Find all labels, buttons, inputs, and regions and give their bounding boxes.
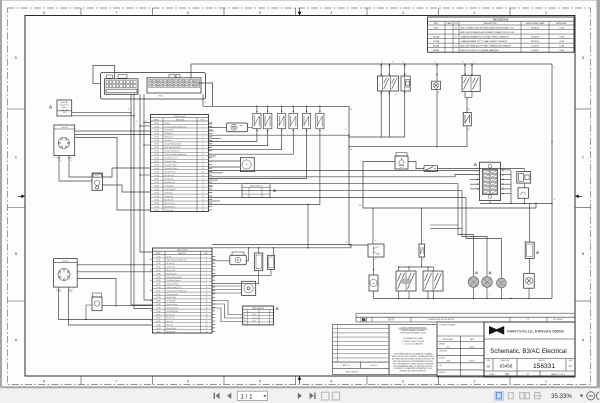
zoom out button xyxy=(587,392,595,400)
svg-text:Chassis Gnd: Chassis Gnd xyxy=(165,210,174,212)
svg-text:31: 31 xyxy=(438,92,440,94)
temp module xyxy=(518,188,528,199)
revision table xyxy=(428,17,575,52)
svg-text:23: 23 xyxy=(202,199,204,201)
jumper loop wire xyxy=(93,66,115,84)
relay K1 xyxy=(377,76,398,91)
solenoid pair A xyxy=(396,271,416,291)
svg-text:J1A Traction: J1A Traction xyxy=(174,115,185,118)
svg-text:25: 25 xyxy=(202,206,204,208)
valve right pin wires xyxy=(500,169,511,171)
svg-text:Black: Black xyxy=(253,314,257,316)
svg-text:6: 6 xyxy=(187,380,189,384)
svg-text:REVISIONS: REVISIONS xyxy=(493,18,508,22)
svg-text:10/28/20: 10/28/20 xyxy=(531,27,540,29)
relay K2 xyxy=(462,75,480,91)
single page view button active xyxy=(494,391,504,400)
fuse box small xyxy=(92,173,103,190)
svg-text:REV: REV xyxy=(569,360,572,362)
bottom bus xyxy=(374,297,553,299)
hour meter xyxy=(227,123,248,132)
svg-text:5: 5 xyxy=(259,11,261,15)
center mark top xyxy=(298,12,302,16)
svg-text:3: 3 xyxy=(402,11,404,15)
svg-text:63458: 63458 xyxy=(500,363,513,368)
svg-text:1: 1 xyxy=(545,11,547,15)
rotate cw button xyxy=(332,392,339,400)
svg-text:5: 5 xyxy=(259,380,261,384)
rotate ccw button xyxy=(322,392,329,400)
svg-text:APPROVALS: APPROVALS xyxy=(443,338,454,341)
title block number row xyxy=(484,358,575,360)
svg-text:INTERPRET PER ASME Y14.5M: INTERPRET PER ASME Y14.5M xyxy=(401,332,426,335)
next page button xyxy=(298,393,302,399)
fuse F3 xyxy=(421,208,423,244)
horn 2 xyxy=(482,277,493,288)
svg-text:WT: WT xyxy=(527,374,530,376)
svg-text:FUNCTION: FUNCTION xyxy=(176,119,185,121)
harness vertical wires xyxy=(131,94,153,305)
keyswitch 1 xyxy=(54,125,75,156)
svg-text:CLM: CLM xyxy=(559,46,564,48)
svg-text:UNIT WEIGHT: UNIT WEIGHT xyxy=(553,319,563,321)
center mark bottom xyxy=(298,376,302,380)
svg-text:MARYSVILLE, KANSAS 66508: MARYSVILLE, KANSAS 66508 xyxy=(507,328,564,333)
horn 1 xyxy=(468,277,479,288)
svg-text:1/31/22: 1/31/22 xyxy=(531,50,539,52)
flasher module xyxy=(396,153,407,157)
svg-text:20: 20 xyxy=(206,321,208,323)
svg-text:WIRE #: WIRE # xyxy=(156,253,162,255)
svg-text:KYSW: KYSW xyxy=(56,158,61,160)
svg-text:±.05 ±.01 ±.005 ANGLES: ±.05 ±.01 ±.005 ANGLES xyxy=(404,343,424,346)
warning triangle temp xyxy=(276,307,279,309)
page bottom shadow xyxy=(2,387,597,389)
title block approvals column xyxy=(437,322,484,377)
svg-text:1 PLACE 2 PLACE 3 PLACE: 1 PLACE 2 PLACE 3 PLACE xyxy=(402,340,425,343)
svg-text:4: 4 xyxy=(331,11,333,15)
svg-text:8: 8 xyxy=(43,380,45,384)
svg-text:23: 23 xyxy=(206,331,208,333)
svg-text:50: 50 xyxy=(60,160,62,162)
svg-text:15: 15 xyxy=(202,172,204,174)
svg-text:10: 10 xyxy=(206,287,208,289)
svg-text:18: 18 xyxy=(136,121,138,123)
svg-text:CLM: CLM xyxy=(559,36,564,38)
warning triangle valve xyxy=(474,163,477,165)
svg-text:87: 87 xyxy=(375,259,377,261)
svg-text:CHANGED BRAKE POT TO HALL EFFE: CHANGED BRAKE POT TO HALL EFFECT SENSOR xyxy=(461,35,510,38)
fuse F4 xyxy=(529,203,531,242)
viewer toolbar xyxy=(0,388,600,403)
svg-text:85: 85 xyxy=(392,62,394,64)
svg-text:CHECK BY APP. DATE: CHECK BY APP. DATE xyxy=(525,22,545,25)
svg-text:18: 18 xyxy=(202,182,204,184)
svg-text:SHEET 1 OF 1: SHEET 1 OF 1 xyxy=(551,374,566,376)
svg-text:7: 7 xyxy=(202,144,203,146)
two page view button xyxy=(520,393,524,399)
svg-text:ENGRG: ENGRG xyxy=(439,358,446,360)
charge port box xyxy=(57,100,72,116)
svg-text:Trans Sw: Trans Sw xyxy=(61,126,69,129)
svg-text:ADD CONNECTORS FOR AUX VALVE S: ADD CONNECTORS FOR AUX VALVE SWITCH AND … xyxy=(461,26,515,29)
svg-text:PART NO: PART NO xyxy=(342,364,350,367)
label tabs above J2 xyxy=(169,75,175,78)
table J1A left stub wires xyxy=(144,122,151,124)
svg-text:17: 17 xyxy=(206,311,208,313)
svg-text:B+: B+ xyxy=(345,129,347,131)
svg-text:APPLICATION: APPLICATION xyxy=(346,371,358,374)
svg-text:CLM: CLM xyxy=(559,41,564,43)
valve loop wire xyxy=(363,162,536,209)
bus1 wire xyxy=(203,105,349,107)
svg-text:30: 30 xyxy=(70,292,72,294)
svg-text:12: 12 xyxy=(206,294,208,296)
svg-text:ADD OPTIONAL ACUITY FAST CHARG: ADD OPTIONAL ACUITY FAST CHARGE 80V SENS… xyxy=(461,45,512,48)
table J1B right stubs all rows xyxy=(212,255,215,257)
svg-text:Schematic, B3/AC Electrical: Schematic, B3/AC Electrical xyxy=(490,348,566,355)
svg-text:85: 85 xyxy=(473,62,475,64)
table J1B right wires xyxy=(212,244,351,247)
svg-text:8: 8 xyxy=(202,147,203,149)
svg-text:13: 13 xyxy=(202,165,204,167)
warning triangle horn1 xyxy=(475,271,478,273)
svg-text:15: 15 xyxy=(434,62,436,64)
svg-text:22: 22 xyxy=(202,196,204,198)
valve connector block xyxy=(480,162,501,200)
svg-text:6: 6 xyxy=(187,11,189,15)
svg-text:30: 30 xyxy=(70,160,72,162)
svg-text:86: 86 xyxy=(402,62,404,64)
zone ticks and labels xyxy=(80,8,82,16)
solenoid pair B xyxy=(423,271,443,291)
fuse F2 xyxy=(463,113,471,126)
svg-text:156331: 156331 xyxy=(533,363,555,370)
svg-text:21: 21 xyxy=(202,192,204,194)
svg-text:15: 15 xyxy=(423,240,425,242)
svg-text:6/4/21: 6/4/21 xyxy=(470,361,475,363)
svg-text:4: 4 xyxy=(202,133,203,135)
switch module xyxy=(408,162,424,169)
svg-text:WIRE #: WIRE # xyxy=(154,119,160,121)
svg-text:1714A: 1714A xyxy=(433,35,440,38)
svg-text:87: 87 xyxy=(346,242,348,244)
svg-text:SCALE: SCALE xyxy=(489,373,495,376)
svg-text:TEMP SENSOR: TEMP SENSOR xyxy=(252,308,265,310)
svg-text:Elect: Elect xyxy=(159,95,164,98)
svg-text:15: 15 xyxy=(206,304,208,306)
keyswitch 2 xyxy=(54,259,78,288)
prev page button xyxy=(227,393,231,399)
svg-text:87: 87 xyxy=(380,94,382,96)
svg-text:B+: B+ xyxy=(554,67,556,69)
BOM header strip xyxy=(356,313,575,317)
svg-text:DWG NO: DWG NO xyxy=(538,360,545,362)
wire J2 to right bus xyxy=(198,83,213,106)
svg-text:20: 20 xyxy=(202,189,204,191)
continuous view button xyxy=(535,393,540,399)
svg-text:10: 10 xyxy=(502,179,504,181)
connector J1 left xyxy=(105,79,139,95)
svg-text:3: 3 xyxy=(202,130,203,132)
brake relay xyxy=(368,244,384,257)
title block company row xyxy=(484,322,575,377)
svg-text:CLM: CLM xyxy=(446,361,450,363)
bus1 drop to relay column xyxy=(349,106,368,245)
svg-text:SIZE OR: SIZE OR xyxy=(388,320,395,322)
first page button xyxy=(216,393,220,399)
splice group table xyxy=(242,184,270,198)
warning triangle F4 xyxy=(536,251,539,253)
svg-text:30: 30 xyxy=(462,62,464,64)
charge port wires xyxy=(72,112,131,114)
svg-text:14: 14 xyxy=(206,301,208,303)
svg-text:2: 2 xyxy=(474,11,476,15)
bowtie logo xyxy=(489,326,504,335)
svg-text:P3: P3 xyxy=(244,320,246,322)
svg-text:Hyd Fan Relay: Hyd Fan Relay xyxy=(167,273,177,275)
temp sensor table xyxy=(243,306,274,325)
controller connector block xyxy=(101,73,206,100)
label tabs above J1 xyxy=(107,75,113,78)
valve bus xyxy=(480,202,552,204)
svg-text:ISSUED: ISSUED xyxy=(439,372,446,374)
svg-text:6: 6 xyxy=(202,140,203,142)
solenoid S1 xyxy=(401,76,410,91)
svg-text:ADD UNPOPULATED AUX POWER CONN: ADD UNPOPULATED AUX POWER CONNECTOR B PL… xyxy=(461,31,515,34)
extra fan wires right of J1A xyxy=(208,123,212,125)
svg-text:18: 18 xyxy=(206,314,208,316)
svg-text:26: 26 xyxy=(202,210,204,212)
svg-text:M: M xyxy=(373,282,375,285)
warning triangle horn2 xyxy=(489,271,492,273)
svg-text:12: 12 xyxy=(128,109,130,111)
svg-text:N/A: N/A xyxy=(505,373,509,376)
wire connector to bus1 xyxy=(202,94,204,106)
svg-text:12: 12 xyxy=(202,161,204,163)
right feed wire xyxy=(551,64,553,298)
svg-text:11: 11 xyxy=(206,290,208,292)
svg-text:1 / 1: 1 / 1 xyxy=(241,393,254,400)
last page button xyxy=(310,393,314,399)
svg-text:11/24/20: 11/24/20 xyxy=(531,36,540,38)
svg-text:30: 30 xyxy=(381,62,383,64)
svg-text:10: 10 xyxy=(202,154,204,156)
warning triangle charge port xyxy=(49,105,52,108)
svg-text:17: 17 xyxy=(202,178,204,180)
aux wires below valve xyxy=(430,224,458,226)
svg-text:6/4/21: 6/4/21 xyxy=(470,346,475,348)
svg-text:19: 19 xyxy=(202,185,204,187)
svg-text:SPLICE GROUP: SPLICE GROUP xyxy=(250,186,262,188)
svg-text:Charge Port: Charge Port xyxy=(60,104,70,107)
svg-text:11: 11 xyxy=(502,183,504,185)
svg-text:22: 22 xyxy=(206,328,208,330)
separator module xyxy=(246,248,248,261)
svg-text:P2: P2 xyxy=(244,317,246,319)
lamp L1 xyxy=(432,81,441,89)
fuse tall 2 xyxy=(272,248,274,256)
keyswitch1 wires xyxy=(75,130,151,132)
svg-text:35.33%: 35.33% xyxy=(551,393,572,400)
svg-text:1779A: 1779A xyxy=(433,40,440,43)
svg-text:7: 7 xyxy=(116,380,118,384)
svg-text:16: 16 xyxy=(206,307,208,309)
svg-text:Key Sw: Key Sw xyxy=(63,261,70,263)
svg-text:CHANGE BRAKE POT TO HALL EFFEC: CHANGE BRAKE POT TO HALL EFFECT SENSOR xyxy=(461,40,508,43)
svg-text:19: 19 xyxy=(206,318,208,320)
svg-text:86: 86 xyxy=(395,94,397,96)
center mark left xyxy=(21,194,25,198)
svg-text:87: 87 xyxy=(465,94,467,96)
svg-text:ADD PLUG BODY TO ENGINE HARNES: ADD PLUG BODY TO ENGINE HARNESS xyxy=(461,49,500,52)
svg-text:13: 13 xyxy=(206,297,208,299)
svg-text:FUNCTION: FUNCTION xyxy=(178,253,187,255)
svg-text:21: 21 xyxy=(206,325,208,327)
fit page button xyxy=(508,393,513,399)
fuel level sender xyxy=(242,281,256,295)
keyswitch1 lower wires xyxy=(59,156,92,181)
svg-text:Audio Tab: Audio Tab xyxy=(61,101,69,104)
lower bus y146 xyxy=(349,146,467,148)
svg-text:TOLERANCES ALLOWED: TOLERANCES ALLOWED xyxy=(403,337,424,340)
connector J2 right xyxy=(147,78,201,93)
svg-text:APPROVED: APPROVED xyxy=(556,22,567,25)
svg-text:1: 1 xyxy=(545,380,547,384)
svg-text:2: 2 xyxy=(474,380,476,384)
svg-text:P1: P1 xyxy=(244,314,246,316)
svg-text:WRITTEN PERMISSION OF ENGINEER: WRITTEN PERMISSION OF ENGINEERING IS PRO… xyxy=(393,361,433,363)
svg-text:GND: GND xyxy=(358,205,361,207)
alternator xyxy=(240,158,254,172)
zoom in button edge xyxy=(596,392,599,400)
svg-text:86: 86 xyxy=(375,240,377,242)
splice fuse boxes xyxy=(253,113,261,128)
wire to connector J2 xyxy=(190,64,192,79)
svg-text:CHECKED: CHECKED xyxy=(439,351,448,353)
svg-text:SIZE: SIZE xyxy=(487,360,490,362)
svg-text:5: 5 xyxy=(202,137,203,139)
svg-text:8: 8 xyxy=(43,11,45,15)
warning triangle splice xyxy=(273,189,276,191)
table J1A right wire runs xyxy=(208,134,349,136)
svg-text:T: T xyxy=(521,178,522,180)
valve bottom drop xyxy=(489,201,491,204)
svg-text:CLM: CLM xyxy=(559,27,564,29)
page number input xyxy=(237,391,267,400)
horn 3 xyxy=(497,278,507,288)
parts list table xyxy=(333,325,390,375)
svg-text:2023B: 2023B xyxy=(433,46,440,48)
svg-text:16: 16 xyxy=(145,121,147,123)
svg-text:CLM: CLM xyxy=(559,50,564,52)
pin squares on bus drops xyxy=(381,65,382,66)
svg-text:12/15/21: 12/15/21 xyxy=(531,41,540,43)
svg-text:87a: 87a xyxy=(388,94,391,96)
keyswitch2 wires xyxy=(77,264,152,266)
svg-text:11: 11 xyxy=(202,158,204,160)
table J1A pinout xyxy=(151,114,209,211)
table J1B pinout xyxy=(153,248,213,333)
pump motor xyxy=(369,275,378,291)
top bus wire xyxy=(191,63,552,65)
svg-text:Socket: Socket xyxy=(62,106,68,109)
svg-text:4: 4 xyxy=(331,380,333,384)
table J1B left stubs xyxy=(150,259,153,261)
svg-text:16: 16 xyxy=(202,175,204,177)
svg-text:DESCRIPTION: DESCRIPTION xyxy=(484,23,497,25)
svg-text:J1B Traction: J1B Traction xyxy=(177,249,188,252)
svg-text:14: 14 xyxy=(202,168,204,170)
tolerance statement block xyxy=(389,325,437,375)
center mark right xyxy=(575,194,579,198)
svg-text:Chg Pump Relay: Chg Pump Relay xyxy=(167,294,179,296)
svg-text:Fuse: Fuse xyxy=(95,176,99,178)
zoom dropdown caret xyxy=(580,395,583,398)
throttle module xyxy=(523,169,525,172)
solenoid bus xyxy=(399,266,434,268)
bottom link bus K1 xyxy=(349,136,405,138)
svg-text:0917: 0917 xyxy=(434,27,440,29)
svg-text:31: 31 xyxy=(554,199,556,201)
relay K1 wires xyxy=(380,64,382,76)
svg-text:QTY: QTY xyxy=(526,319,529,321)
svg-text:85: 85 xyxy=(408,91,410,93)
svg-text:4023B: 4023B xyxy=(433,50,440,52)
svg-text:PIN #: PIN # xyxy=(205,253,209,255)
svg-text:1/31/23: 1/31/23 xyxy=(531,46,539,48)
svg-text:PIN #: PIN # xyxy=(201,119,205,121)
fuel sender small xyxy=(93,293,102,297)
svg-text:DIMENSIONS ARE IN INCHES: DIMENSIONS ARE IN INCHES xyxy=(401,329,425,332)
svg-text:DWG NO: DWG NO xyxy=(370,365,378,367)
svg-text:B+: B+ xyxy=(205,102,207,104)
svg-text:24: 24 xyxy=(202,203,204,205)
svg-text:1: 1 xyxy=(202,123,203,125)
svg-text:7: 7 xyxy=(116,11,118,15)
sensor tall 1 xyxy=(258,248,260,253)
title block scale row xyxy=(484,370,575,372)
beacon lamp xyxy=(529,258,531,273)
svg-text:12: 12 xyxy=(502,187,504,189)
svg-text:9: 9 xyxy=(202,151,203,153)
svg-text:3: 3 xyxy=(402,380,404,384)
svg-text:Reach In Sol: Reach In Sol xyxy=(165,199,174,201)
temp sensor wires xyxy=(212,301,243,315)
svg-text:Blue: Blue xyxy=(253,320,256,322)
svg-text:2: 2 xyxy=(202,126,203,128)
svg-text:DATE: DATE xyxy=(447,22,453,25)
svg-text:50: 50 xyxy=(60,292,62,294)
svg-text:30: 30 xyxy=(423,259,425,261)
valve left pin wires xyxy=(470,178,480,180)
